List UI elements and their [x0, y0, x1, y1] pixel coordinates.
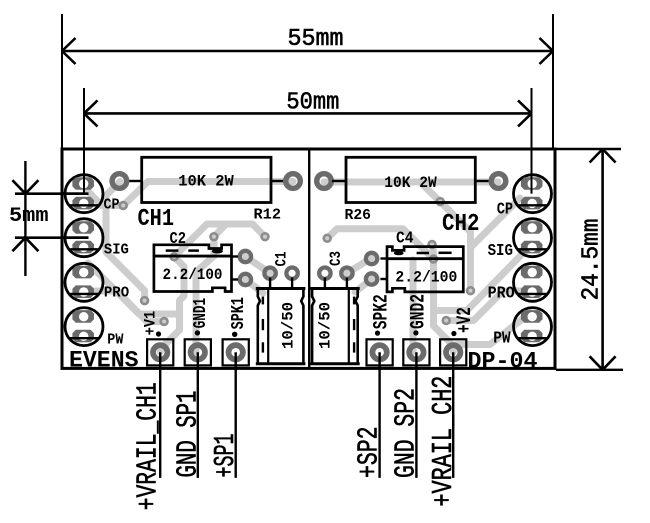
via B4	[429, 241, 436, 248]
connector pad CP right	[514, 175, 552, 213]
leader line +SP2	[378, 352, 380, 478]
capacitor C2 body	[154, 245, 232, 292]
50mm extension overlay right	[531, 170, 533, 194]
wire C4 bottom pad stub	[355, 279, 372, 292]
label DP-04	[468, 349, 538, 375]
svg-text:10/50: 10/50	[280, 302, 298, 349]
svg-text:CH2: CH2	[442, 211, 480, 238]
svg-text:GND2: GND2	[408, 294, 431, 329]
svg-text:C4: C4	[396, 230, 414, 249]
wire C2 to +V1	[160, 257, 184, 352]
pad R12 right	[286, 174, 301, 189]
svg-text:+VRAIL_CH1: +VRAIL_CH1	[132, 382, 165, 510]
svg-text:SPK2: SPK2	[371, 294, 394, 329]
capacitor C2 lead bottom	[232, 278, 239, 280]
pin1 dot GND2	[413, 330, 418, 335]
5mm dimension line top	[15, 192, 89, 195]
5mm dimension line bottom	[15, 236, 89, 239]
wire CP right route	[471, 198, 521, 248]
leader line +VRAIL_CH2	[452, 352, 454, 478]
svg-text:PW: PW	[107, 332, 123, 348]
label GND2	[408, 294, 431, 329]
leader line GND SP2	[415, 352, 417, 478]
svg-text:CH1: CH1	[138, 206, 175, 233]
svg-text:GND1: GND1	[190, 298, 211, 329]
svg-text:10K 2W: 10K 2W	[384, 174, 437, 192]
svg-text:R12: R12	[254, 207, 282, 224]
resistor R26 body	[346, 157, 475, 202]
wire C2 pad to C1 pad	[245, 257, 270, 274]
svg-text:R26: R26	[345, 207, 372, 224]
wire PRO right route	[446, 291, 529, 321]
label PW left	[107, 332, 123, 348]
capacitor C2 value 2.2/100	[163, 266, 223, 284]
wire SIG right route	[434, 247, 530, 311]
resistor R12 lead right	[271, 180, 283, 182]
leader line GND SP1	[197, 352, 199, 478]
pin1 dot +V2	[451, 331, 456, 336]
55mm dimension text	[288, 26, 344, 53]
wire via to R12 horizontal	[123, 182, 293, 206]
net label +VRAIL_CH2	[427, 376, 460, 507]
svg-text:+SP1: +SP1	[209, 434, 242, 478]
label +V1	[141, 311, 159, 336]
label SIG left	[104, 242, 129, 258]
svg-text:50mm: 50mm	[286, 89, 339, 116]
5mm line overlay top	[62, 192, 89, 195]
capacitor C1 lead left	[269, 278, 271, 290]
net label GND SP1	[172, 391, 205, 478]
svg-text:24.5mm: 24.5mm	[579, 219, 606, 301]
wire C2 bottom pad stub	[245, 280, 263, 294]
capacitor C2 lead top	[232, 255, 239, 257]
label C4	[396, 230, 414, 249]
pad C2 negative	[240, 274, 251, 285]
wire PRO to +V1 via	[86, 291, 165, 322]
wire C4 pad to C3 pad	[347, 258, 372, 273]
via B7	[443, 317, 450, 324]
label R12	[254, 207, 282, 224]
resistor R12 value 10K 2W	[178, 173, 234, 191]
55mm dimension extension line right	[552, 14, 554, 149]
wire R12 left pad down	[106, 182, 145, 301]
5mm line overlay bottom	[62, 236, 89, 239]
svg-text:2.2/100: 2.2/100	[163, 266, 223, 284]
connector pad PRO right	[514, 263, 552, 301]
label PW right	[493, 330, 511, 349]
connector pad PW right	[514, 308, 552, 346]
svg-text:SPK1: SPK1	[228, 297, 249, 329]
connector pad CP left	[65, 175, 103, 213]
50mm extension overlay left	[83, 170, 85, 194]
pad C2 positive	[240, 251, 251, 262]
via A2	[211, 233, 218, 240]
svg-text:+V2: +V2	[454, 307, 477, 333]
svg-text:2.2/100: 2.2/100	[395, 269, 457, 287]
resistor R12 lead left	[129, 180, 141, 182]
svg-text:+VRAIL_CH2: +VRAIL_CH2	[427, 376, 460, 507]
svg-text:PRO: PRO	[104, 285, 129, 301]
connector pad SIG left	[65, 219, 103, 257]
via A3	[262, 233, 269, 240]
pad R26 right	[491, 174, 506, 189]
label SPK1	[228, 297, 249, 329]
wire via to CP-right vertical	[440, 202, 470, 291]
capacitor C3 lead right	[346, 278, 348, 290]
svg-text:PW: PW	[493, 330, 511, 349]
label SPK2	[371, 294, 394, 329]
net label +SP2	[353, 427, 386, 479]
svg-text:GND SP2: GND SP2	[390, 388, 423, 478]
connector pad PW left	[65, 308, 103, 346]
capacitor C4 lead top	[380, 257, 387, 259]
wire GND1 vertical	[196, 237, 214, 352]
via A1	[120, 202, 127, 209]
55mm dimension extension line left	[61, 14, 63, 149]
24.5mm dimension tick bottom	[556, 369, 623, 371]
50mm dimension extension line right	[531, 88, 533, 193]
wire PW right to +V2	[457, 313, 530, 345]
via B1	[437, 198, 444, 205]
net label +SP1	[209, 434, 242, 478]
5mm dimension vertical line with arrows	[12, 161, 38, 276]
via A4	[171, 253, 178, 260]
label CP right	[497, 201, 513, 220]
label EVENS	[69, 348, 139, 374]
pad R12 left	[112, 174, 127, 189]
capacitor C3 lead left	[324, 278, 326, 290]
55mm dimension line	[62, 38, 553, 64]
svg-text:SIG: SIG	[104, 242, 129, 258]
capacitor C4 value 2.2/100	[395, 269, 457, 287]
capacitor C3 value 10/50	[317, 302, 335, 349]
5mm dimension text	[9, 205, 49, 228]
wire CP to R12 via	[86, 189, 123, 206]
svg-text:C1: C1	[273, 252, 291, 267]
pad C3 left	[319, 268, 330, 279]
terminal pad SPK2	[367, 339, 393, 365]
pad C1 right	[286, 268, 297, 279]
pin1 dot +V1	[156, 331, 161, 336]
resistor R26 lead right	[475, 180, 488, 182]
connector pad SIG right	[514, 219, 552, 257]
pin1 dot SPK2	[375, 331, 380, 336]
svg-text:10/50: 10/50	[317, 302, 335, 349]
svg-text:DP-04: DP-04	[468, 349, 538, 375]
label +V2	[454, 307, 477, 333]
leader line +SP1	[234, 352, 236, 478]
terminal pad SPK1	[223, 339, 249, 365]
pad C3 right	[341, 268, 352, 279]
label CH2	[442, 211, 480, 238]
wire SIG route left	[88, 263, 180, 314]
terminal pad +V1	[147, 339, 173, 365]
svg-text:PRO: PRO	[488, 285, 515, 304]
label PRO left	[104, 285, 129, 301]
svg-text:CP: CP	[104, 197, 120, 213]
50mm dimension line	[84, 100, 532, 126]
capacitor C4 body	[387, 247, 463, 292]
capacitor C4 lead bottom	[380, 278, 387, 280]
wire R26 kink to via	[420, 182, 440, 202]
svg-text:EVENS: EVENS	[69, 348, 139, 374]
pin1 dot SPK1	[232, 332, 237, 337]
via A6	[161, 318, 168, 325]
net label GND SP2	[390, 388, 423, 478]
capacitor C1 body	[256, 289, 306, 364]
label GND1	[190, 298, 211, 329]
24.5mm dimension tick top	[556, 148, 621, 150]
pad C4 positive	[366, 253, 377, 264]
terminal pad GND2	[403, 339, 429, 365]
label PRO right	[488, 285, 515, 304]
via B6	[467, 287, 474, 294]
pad C1 left	[264, 268, 275, 279]
svg-text:+V1: +V1	[141, 311, 159, 336]
resistor R26 lead left	[332, 180, 346, 182]
svg-text:5mm: 5mm	[9, 205, 49, 228]
24.5mm dimension text	[579, 219, 606, 301]
label CH1	[138, 206, 175, 233]
terminal pad +V2	[440, 339, 466, 365]
wire +V2 route	[434, 259, 454, 352]
svg-text:C3: C3	[327, 251, 345, 266]
pad R26 left	[317, 174, 332, 189]
label C2	[170, 230, 187, 249]
connector pad PRO left	[65, 263, 103, 301]
svg-text:CP: CP	[497, 201, 513, 220]
label CP left	[104, 197, 120, 213]
terminal pad GND1	[185, 339, 211, 365]
label C1	[273, 252, 291, 267]
wire via bridge over C4	[327, 229, 433, 259]
label R26	[345, 207, 372, 224]
resistor R26 value 10K 2W	[384, 174, 437, 192]
label SIG right	[488, 242, 513, 261]
svg-text:55mm: 55mm	[288, 26, 344, 53]
svg-text:10K 2W: 10K 2W	[178, 173, 234, 191]
capacitor C3 body	[310, 289, 360, 364]
wire C4 via pair	[430, 246, 438, 260]
svg-text:SIG: SIG	[488, 242, 513, 261]
pad C4 negative	[366, 273, 377, 284]
pin1 dot GND1	[195, 330, 200, 335]
resistor R12 body	[142, 157, 271, 202]
50mm dimension text	[286, 89, 339, 116]
svg-text:GND SP1: GND SP1	[172, 391, 205, 478]
label C3	[327, 251, 345, 266]
50mm dimension extension line left	[83, 88, 85, 193]
wire left via stub	[214, 224, 226, 237]
24.5mm dimension line	[590, 149, 616, 370]
board center divider	[308, 149, 310, 368]
via B5	[430, 256, 437, 263]
wire GND2 vertical	[410, 260, 417, 352]
board outline	[62, 149, 555, 368]
net label +VRAIL_CH1	[132, 382, 165, 510]
capacitor C1 value 10/50	[280, 302, 298, 349]
wire R26 horizontal	[324, 179, 498, 186]
via A5	[141, 297, 148, 304]
capacitor C1 lead right	[291, 278, 293, 290]
wire via bridge over C2	[174, 224, 265, 257]
leader line +VRAIL_CH1	[159, 352, 161, 478]
via B3	[324, 235, 331, 242]
svg-text:+SP2: +SP2	[353, 427, 386, 479]
